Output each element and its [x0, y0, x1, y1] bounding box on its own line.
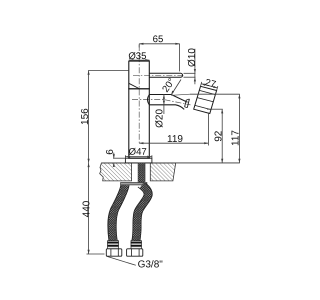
counter top surface line [101, 162, 239, 164]
dimension Ø10 [184, 49, 196, 84]
svg-text:Ø10: Ø10 [187, 48, 198, 67]
faucet body cylinder [129, 89, 150, 158]
centerline of lever rod [133, 74, 185, 76]
handle chamfer line [129, 83, 139, 88]
dimension 65 [139, 43, 179, 72]
left hose edges [108, 185, 129, 241]
spout tube upper edge [149, 95, 187, 103]
aerator head ring line 2 [197, 98, 213, 102]
left hex nut G3/8 [106, 249, 122, 256]
svg-text:440: 440 [81, 200, 92, 217]
spout tube lower edge [149, 105, 184, 110]
svg-text:117: 117 [230, 130, 241, 146]
dimension 440 [87, 163, 105, 254]
svg-text:Ø47: Ø47 [129, 147, 147, 158]
right hose edges [132, 183, 153, 240]
counter slab right hatched section [150, 163, 175, 181]
svg-text:119: 119 [167, 134, 183, 145]
left flexible hose [112, 185, 125, 241]
mounting washer bar [121, 183, 147, 185]
aerator neck ring 1 [185, 100, 187, 107]
dimension 117 [190, 94, 240, 163]
counter slab left hatched section [100, 163, 132, 181]
dimension 92 [207, 109, 223, 163]
right hex nut G3/8 [127, 249, 143, 256]
dimension 119 [139, 113, 208, 146]
dimension 156 [88, 71, 129, 163]
dimension 20 degrees leader [171, 80, 181, 95]
svg-text:Ø35: Ø35 [128, 51, 146, 62]
lever rod Ø10 [149, 73, 182, 77]
centerline of spout angled [165, 100, 191, 105]
centerline vertical of faucet body [138, 45, 140, 143]
aerator head ring line 1 [199, 90, 215, 94]
svg-text:65: 65 [153, 34, 164, 45]
dimension Ø47 [125, 155, 151, 158]
base escutcheon plate Ø47 [125, 158, 151, 163]
dimension Ø20 [163, 94, 165, 114]
dimension 6 [113, 153, 126, 167]
svg-text:Ø20: Ø20 [155, 109, 166, 128]
handle knob Ø35 [129, 61, 150, 89]
aerator neck outline [185, 99, 190, 108]
threaded shank below counter [138, 163, 145, 183]
dimension 27 [201, 82, 218, 91]
svg-text:156: 156 [80, 108, 91, 125]
spout to head seam line [171, 94, 190, 95]
centerline of spout horizontal [132, 99, 165, 101]
aerator neck ring 2 [187, 99, 189, 108]
right hose collar rings [131, 241, 142, 249]
svg-text:92: 92 [213, 130, 224, 142]
right flexible hose [136, 185, 148, 241]
svg-text:6: 6 [105, 149, 116, 155]
left hose collar rings [107, 241, 118, 249]
aerator head body [194, 86, 217, 113]
spout left cap arc [148, 95, 150, 105]
aerator head ring line 3 [195, 105, 211, 109]
dimension Ø35 [129, 59, 149, 61]
svg-text:G3/8": G3/8" [138, 259, 164, 270]
leader G3/8 [107, 256, 136, 265]
